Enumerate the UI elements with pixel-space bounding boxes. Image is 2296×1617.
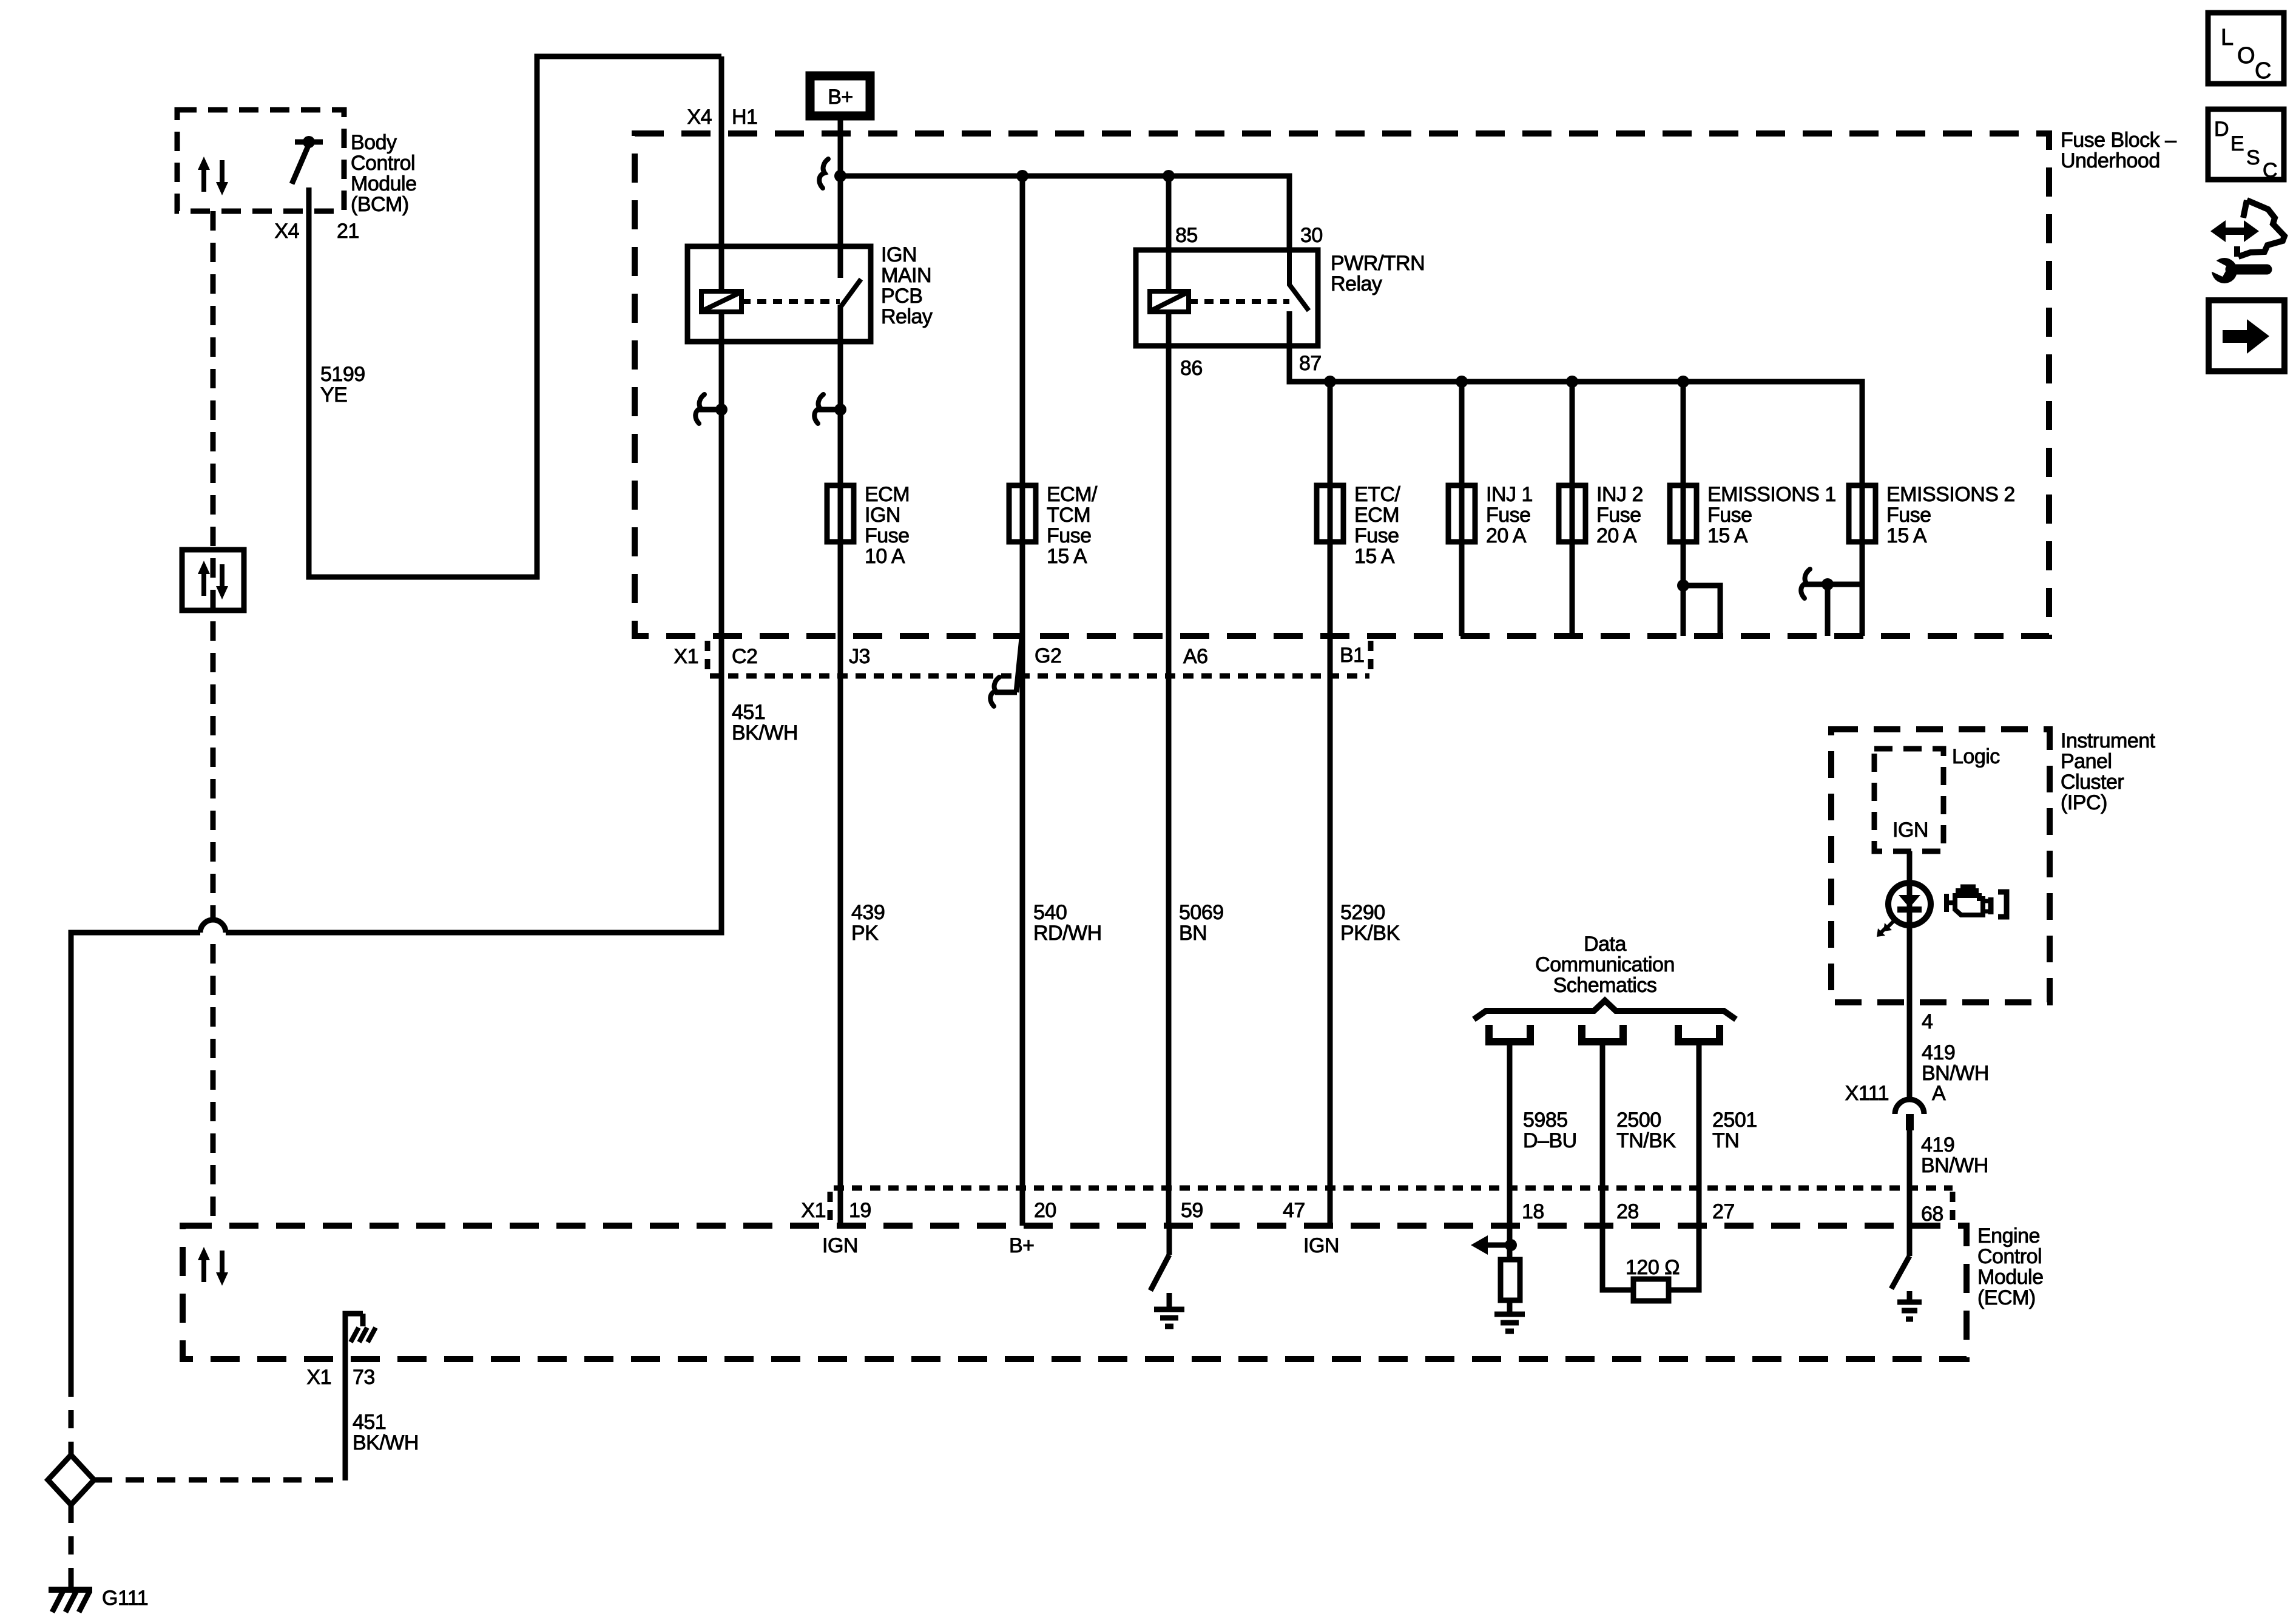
svg-text:30: 30 xyxy=(1300,224,1323,247)
svg-text:419: 419 xyxy=(1922,1041,1955,1064)
svg-text:15 A: 15 A xyxy=(1047,545,1087,568)
svg-text:B1: B1 xyxy=(1340,644,1365,667)
svg-text:15 A: 15 A xyxy=(1707,524,1748,547)
svg-text:Control: Control xyxy=(1977,1245,2042,1268)
svg-text:451: 451 xyxy=(353,1411,386,1434)
svg-text:Fuse Block –: Fuse Block – xyxy=(2061,129,2176,152)
svg-text:Control: Control xyxy=(351,152,415,175)
svg-text:20 A: 20 A xyxy=(1596,524,1637,547)
svg-text:E: E xyxy=(2230,132,2244,155)
svg-text:Panel: Panel xyxy=(2061,750,2112,773)
svg-text:X111: X111 xyxy=(1845,1082,1889,1105)
svg-text:419: 419 xyxy=(1921,1133,1954,1156)
svg-text:Cluster: Cluster xyxy=(2061,771,2124,794)
svg-text:Fuse: Fuse xyxy=(1886,504,1931,527)
svg-text:Fuse: Fuse xyxy=(1707,504,1752,527)
svg-text:IGN: IGN xyxy=(1303,1234,1339,1257)
svg-text:G2: G2 xyxy=(1035,644,1061,667)
svg-text:5069: 5069 xyxy=(1179,901,1224,924)
svg-text:O: O xyxy=(2237,43,2255,69)
svg-text:BK/WH: BK/WH xyxy=(732,721,798,744)
svg-text:Fuse: Fuse xyxy=(1354,524,1399,547)
svg-text:YE: YE xyxy=(320,383,347,407)
svg-text:ETC/: ETC/ xyxy=(1354,483,1401,506)
svg-text:PWR/TRN: PWR/TRN xyxy=(1331,252,1425,275)
svg-text:19: 19 xyxy=(849,1199,871,1222)
svg-text:INJ 2: INJ 2 xyxy=(1596,483,1643,506)
svg-text:15 A: 15 A xyxy=(1354,545,1395,568)
svg-text:PK/BK: PK/BK xyxy=(1340,922,1400,945)
svg-text:IGN: IGN xyxy=(865,504,900,527)
svg-text:TN: TN xyxy=(1712,1129,1739,1152)
svg-text:MAIN: MAIN xyxy=(881,264,931,287)
svg-text:X4: X4 xyxy=(274,220,299,243)
svg-text:ECM: ECM xyxy=(865,483,910,506)
svg-text:H1: H1 xyxy=(732,106,757,129)
svg-text:120 Ω: 120 Ω xyxy=(1626,1256,1680,1279)
svg-text:28: 28 xyxy=(1616,1200,1639,1223)
svg-text:BK/WH: BK/WH xyxy=(353,1431,419,1454)
svg-text:(IPC): (IPC) xyxy=(2061,791,2107,814)
svg-text:Schematics: Schematics xyxy=(1553,974,1657,997)
svg-text:(BCM): (BCM) xyxy=(351,193,409,216)
svg-text:RD/WH: RD/WH xyxy=(1033,922,1102,945)
svg-text:5199: 5199 xyxy=(320,363,365,386)
svg-text:B+: B+ xyxy=(828,86,853,109)
svg-text:C: C xyxy=(2263,159,2277,182)
svg-text:PCB: PCB xyxy=(881,285,922,308)
svg-text:X1: X1 xyxy=(801,1199,826,1222)
svg-text:59: 59 xyxy=(1181,1199,1203,1222)
svg-text:INJ 1: INJ 1 xyxy=(1486,483,1533,506)
svg-text:85: 85 xyxy=(1175,224,1198,247)
svg-text:86: 86 xyxy=(1180,357,1203,380)
svg-text:D: D xyxy=(2214,118,2229,141)
svg-text:2501: 2501 xyxy=(1712,1109,1757,1132)
svg-text:TCM: TCM xyxy=(1047,504,1090,527)
svg-text:Fuse: Fuse xyxy=(1596,504,1641,527)
svg-text:Module: Module xyxy=(351,172,417,195)
svg-text:TN/BK: TN/BK xyxy=(1616,1129,1676,1152)
svg-text:4: 4 xyxy=(1922,1010,1933,1033)
svg-text:L: L xyxy=(2221,25,2234,50)
svg-text:J3: J3 xyxy=(849,645,870,668)
svg-text:10 A: 10 A xyxy=(865,545,905,568)
svg-text:68: 68 xyxy=(1921,1203,1943,1226)
svg-text:5985: 5985 xyxy=(1523,1109,1568,1132)
svg-text:Fuse: Fuse xyxy=(1486,504,1531,527)
svg-text:BN/WH: BN/WH xyxy=(1921,1154,1988,1177)
svg-text:2500: 2500 xyxy=(1616,1109,1661,1132)
svg-text:18: 18 xyxy=(1522,1200,1544,1223)
svg-text:Underhood: Underhood xyxy=(2061,149,2160,172)
svg-text:ECM/: ECM/ xyxy=(1047,483,1098,506)
svg-text:Data: Data xyxy=(1584,933,1626,956)
svg-text:73: 73 xyxy=(353,1366,375,1389)
svg-text:X4: X4 xyxy=(687,106,712,129)
svg-text:20: 20 xyxy=(1034,1199,1056,1222)
svg-text:Communication: Communication xyxy=(1535,953,1675,976)
svg-text:IGN: IGN xyxy=(822,1234,858,1257)
svg-text:X1: X1 xyxy=(306,1366,331,1389)
svg-text:BN: BN xyxy=(1179,922,1207,945)
svg-text:Fuse: Fuse xyxy=(865,524,910,547)
svg-text:47: 47 xyxy=(1283,1199,1305,1222)
svg-text:439: 439 xyxy=(851,901,885,924)
svg-text:S: S xyxy=(2246,146,2260,169)
svg-text:A: A xyxy=(1932,1082,1946,1105)
svg-text:G111: G111 xyxy=(102,1587,148,1610)
svg-text:Instrument: Instrument xyxy=(2061,729,2156,752)
svg-text:A6: A6 xyxy=(1183,645,1208,668)
svg-text:Engine: Engine xyxy=(1977,1224,2040,1247)
svg-text:540: 540 xyxy=(1033,901,1067,924)
svg-text:IGN: IGN xyxy=(1893,819,1928,842)
svg-text:27: 27 xyxy=(1712,1200,1735,1223)
svg-text:D–BU: D–BU xyxy=(1523,1129,1577,1152)
svg-text:15 A: 15 A xyxy=(1886,524,1927,547)
svg-text:Relay: Relay xyxy=(881,305,933,328)
svg-text:Module: Module xyxy=(1977,1266,2044,1289)
svg-text:X1: X1 xyxy=(674,645,698,668)
svg-text:(ECM): (ECM) xyxy=(1977,1286,2036,1309)
svg-text:Body: Body xyxy=(351,131,397,154)
svg-text:Fuse: Fuse xyxy=(1047,524,1092,547)
svg-text:IGN: IGN xyxy=(881,243,917,266)
svg-text:21: 21 xyxy=(337,220,359,243)
svg-text:C2: C2 xyxy=(732,645,757,668)
svg-text:B+: B+ xyxy=(1009,1234,1035,1257)
svg-text:C: C xyxy=(2255,58,2271,84)
svg-text:EMISSIONS 2: EMISSIONS 2 xyxy=(1886,483,2015,506)
svg-text:ECM: ECM xyxy=(1354,504,1399,527)
svg-text:451: 451 xyxy=(732,701,765,724)
svg-text:20 A: 20 A xyxy=(1486,524,1527,547)
svg-text:87: 87 xyxy=(1299,352,1322,375)
svg-text:5290: 5290 xyxy=(1340,901,1385,924)
svg-text:Relay: Relay xyxy=(1331,272,1382,295)
svg-text:EMISSIONS 1: EMISSIONS 1 xyxy=(1707,483,1836,506)
svg-text:Logic: Logic xyxy=(1952,745,2000,768)
svg-text:PK: PK xyxy=(851,922,879,945)
